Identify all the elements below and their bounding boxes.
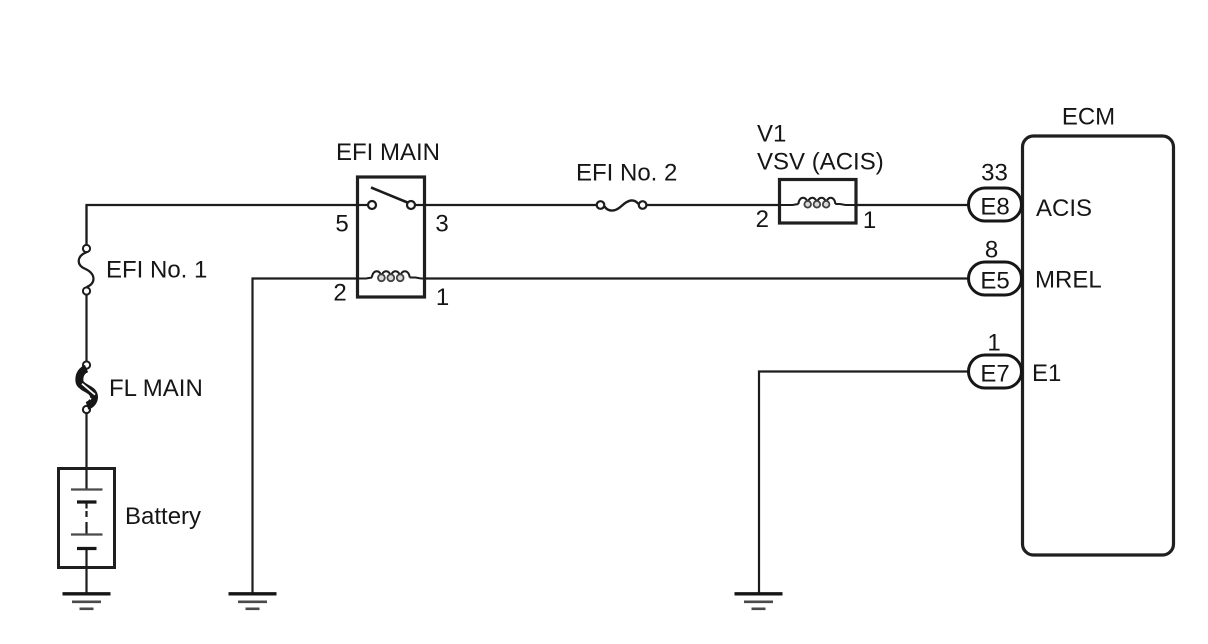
svg-text:EFI No. 2: EFI No. 2 (576, 160, 677, 187)
battery internal lead top (85, 470, 87, 489)
battery plate short negative 2 (77, 547, 97, 550)
svg-text:1: 1 (863, 207, 876, 234)
svg-text:E7: E7 (980, 361, 1009, 388)
fusible link FL MAIN (78, 361, 95, 413)
wire: fuse EFI No.1 upper lead (85, 205, 87, 245)
battery plate long positive 1 (71, 488, 103, 490)
fuse F2 EFI No. 2 (597, 200, 647, 210)
svg-text:8: 8 (985, 237, 998, 264)
svg-text:MREL: MREL (1035, 267, 1102, 294)
svg-text:3: 3 (435, 211, 448, 238)
svg-text:2: 2 (756, 206, 769, 233)
svg-text:2: 2 (333, 280, 346, 307)
svg-text:EFI No. 1: EFI No. 1 (106, 257, 207, 284)
wire: ground column to relay pin 2 (MREL net) (253, 279, 358, 594)
ground G1 (battery) (63, 594, 111, 609)
wire: ECM connector E7 (E1) to ground column (759, 372, 970, 594)
svg-text:V1: V1 (757, 121, 786, 148)
wire: battery column top corner to relay pin 5 (node +B) (87, 205, 358, 244)
svg-text:33: 33 (981, 160, 1008, 187)
svg-text:E8: E8 (980, 194, 1009, 221)
svg-text:VSV (ACIS): VSV (ACIS) (757, 149, 884, 176)
relay coil (356, 271, 426, 281)
svg-text:Battery: Battery (125, 503, 201, 530)
battery plate long positive 2 (71, 533, 103, 535)
wire: fusible link FL MAIN to battery (85, 413, 87, 470)
VSV V1 box (780, 180, 857, 224)
svg-text:5: 5 (335, 211, 348, 238)
fuse F1 EFI No. 1 (79, 245, 94, 295)
svg-text:FL MAIN: FL MAIN (109, 375, 203, 402)
svg-text:ECM: ECM (1062, 104, 1115, 131)
battery plate short negative 1 (77, 500, 97, 503)
ground G2 (relay MREL net) (229, 594, 277, 609)
svg-text:E5: E5 (980, 268, 1009, 295)
wire: relay pin 3 to EFI No.2 fuse (425, 204, 598, 206)
relay switch lead left (358, 204, 369, 206)
wire: VSV pin 1 to ECM connector E8 (855, 204, 970, 206)
relay EFI MAIN box (358, 177, 425, 297)
ground G3 (ECM E1) (735, 594, 783, 609)
relay switch lead right (415, 204, 425, 206)
battery B1 box (59, 469, 115, 568)
connector E8 (969, 188, 1022, 221)
relay switch blade (371, 188, 408, 203)
battery internal lead bottom (85, 549, 87, 567)
wire: battery negative to ground (85, 566, 87, 594)
wire: EFI No.2 fuse to VSV pin 2 (647, 204, 781, 206)
svg-text:E1: E1 (1032, 360, 1061, 387)
wire: relay pin 1 to ECM connector E5 (MREL) (425, 277, 971, 279)
relay switch contact left (368, 201, 376, 209)
svg-text:ACIS: ACIS (1036, 195, 1092, 222)
ECM box (1023, 136, 1174, 555)
wire: between fuse EFI No.1 and fusible link FL MAIN (85, 295, 87, 362)
VSV coil (778, 198, 858, 208)
connector E7 (969, 355, 1022, 388)
battery tick above plate (85, 528, 87, 534)
svg-text:EFI MAIN: EFI MAIN (336, 139, 440, 166)
svg-text:1: 1 (436, 284, 449, 311)
connector E5 (969, 262, 1022, 295)
relay switch contact right (407, 201, 415, 209)
svg-text:1: 1 (987, 330, 1000, 357)
battery tick below plate (85, 504, 87, 509)
battery dashed center link (85, 511, 87, 531)
